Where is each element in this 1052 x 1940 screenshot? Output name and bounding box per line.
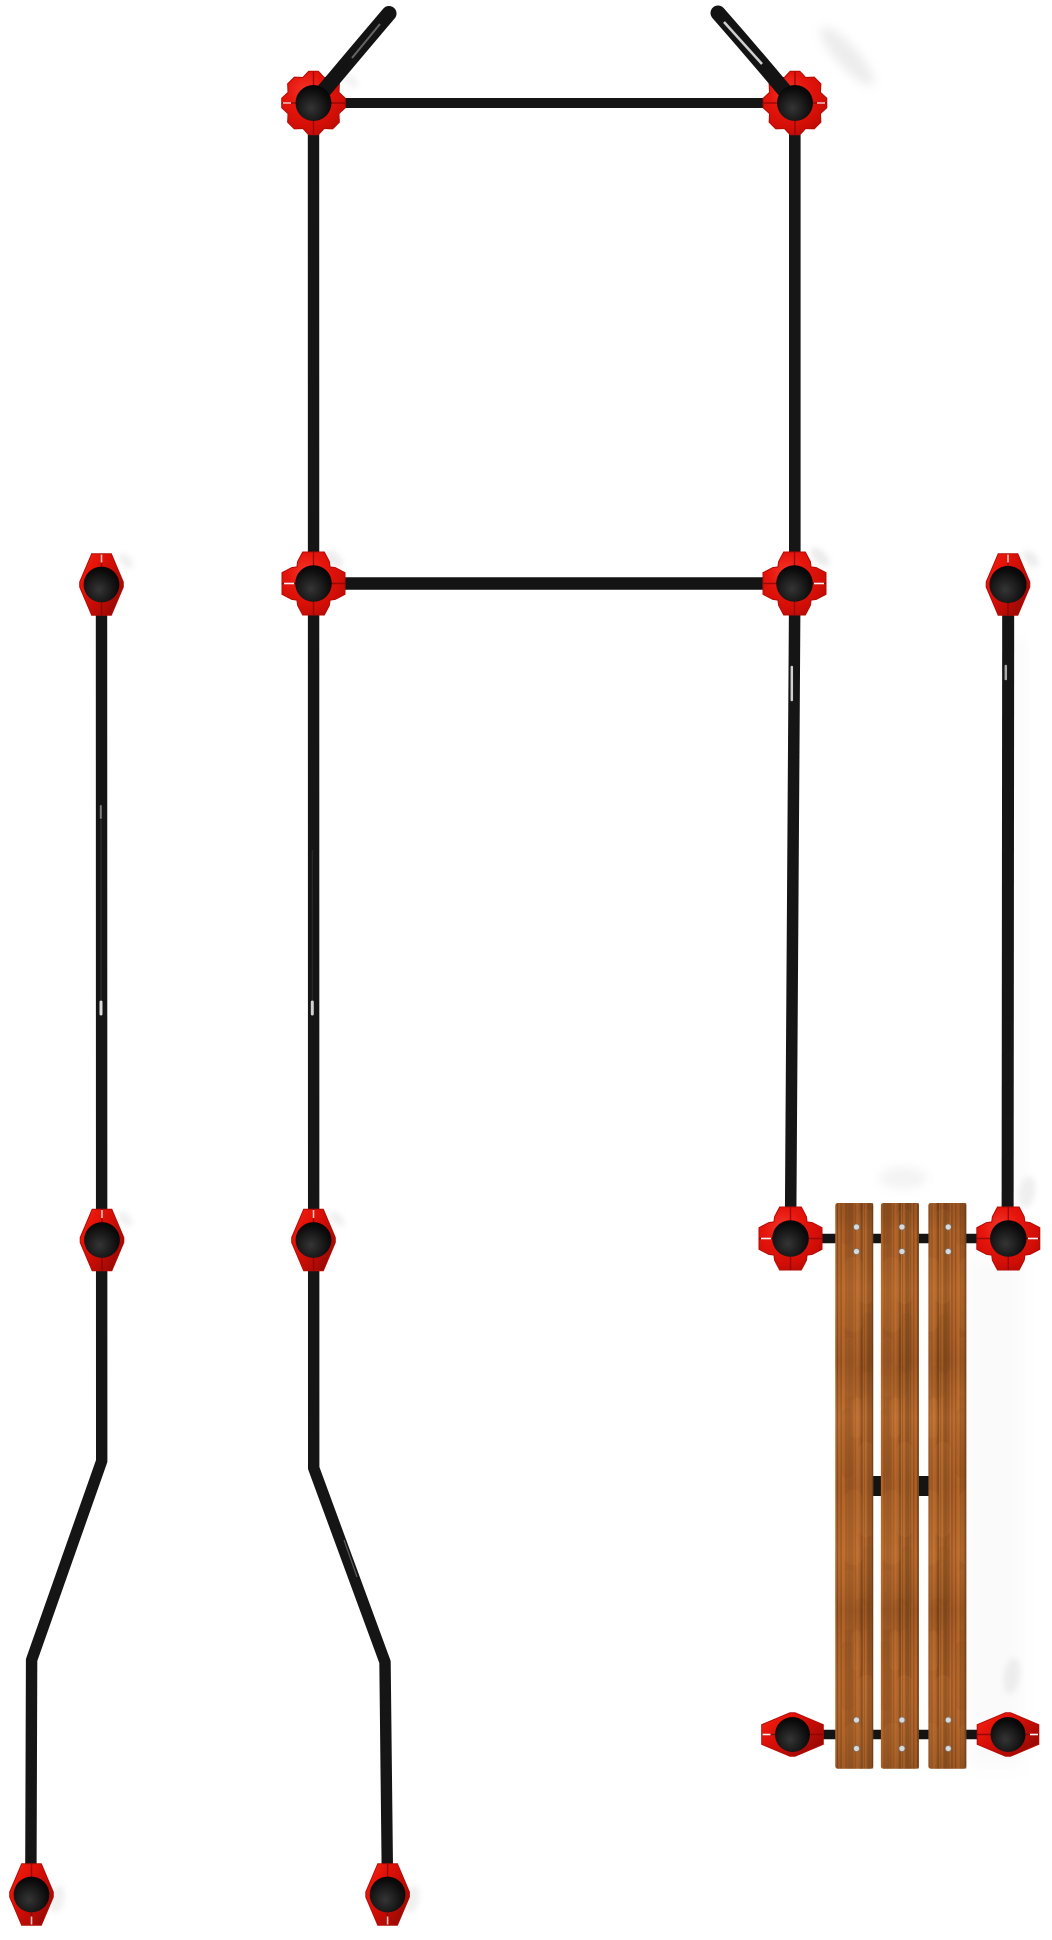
shadow right of clamp C <box>322 547 346 571</box>
shadow above clamp N <box>1002 1657 1023 1695</box>
shadow right of clamp D <box>807 544 832 569</box>
sphere joint at clamp N <box>991 1717 1026 1752</box>
left diagonal handle pipe <box>324 14 389 91</box>
specular highlight on far right pole <box>1005 666 1008 679</box>
right diagonal handle pipe <box>718 13 784 90</box>
right frame vertical pipe <box>789 103 801 584</box>
middle long pole (frame left upright continuing to bottom bend) <box>314 103 388 1894</box>
specular highlight on middle pole slant <box>344 1540 357 1577</box>
far right pole from end clamp to bench clamp <box>1002 592 1015 1235</box>
screws bottom row 2 <box>854 1746 860 1752</box>
screws bottom row 1 <box>854 1717 860 1723</box>
clamp G body (hex clamp, left pole middle) <box>80 1209 124 1271</box>
shadow of right handle <box>813 20 880 91</box>
specular highlight on left pole <box>100 806 102 818</box>
screws top row 1 <box>854 1224 860 1230</box>
pull-up crossbar pipe (second row) <box>314 577 795 589</box>
shadow band right of bench <box>968 1258 1023 1768</box>
shadow right of clamp F <box>1020 547 1042 570</box>
sphere joint at clamp H <box>296 1222 332 1258</box>
specular highlight on right pole <box>791 667 794 700</box>
shadow right of clamp A <box>339 69 360 90</box>
shadow right of far-right pole <box>1016 640 1024 1200</box>
sphere joint at clamp K <box>14 1877 50 1913</box>
clamp I body (4-lobe gear clamp, bench top-left) <box>759 1207 822 1270</box>
clamp N body (hex end clamp, bench bottom-right) <box>977 1713 1039 1757</box>
sphere joint at clamp E <box>84 567 120 603</box>
clamp E body (hex end clamp, left pole top) <box>80 554 124 616</box>
sphere joint at clamp J <box>990 1220 1027 1257</box>
sphere joint at clamp B <box>777 85 813 121</box>
sphere joint at clamp L <box>370 1877 406 1913</box>
clamp K body (hex end clamp, left pole bottom) <box>10 1864 54 1926</box>
screws top row 2 <box>854 1249 860 1255</box>
shadow blob above bench slats <box>879 1167 927 1189</box>
bench bottom support pipe <box>793 1730 1009 1740</box>
left long pole with bottom bend <box>31 585 102 1894</box>
shadow right of clamp E <box>116 551 136 571</box>
top crossbar pipe <box>314 98 796 108</box>
clamp H body (hex clamp, middle pole middle) <box>292 1209 336 1271</box>
bench slat 3 <box>928 1203 966 1769</box>
clamp J body (4-lobe gear clamp, bench top-right) <box>977 1207 1040 1270</box>
sphere joint at clamp M <box>775 1717 810 1752</box>
bench middle support pipe <box>842 1476 960 1496</box>
shadow right of clamp H <box>327 1209 347 1229</box>
clamp M body (hex end clamp, bench bottom-left) <box>762 1713 824 1757</box>
bench slat 1 <box>835 1203 873 1769</box>
sphere joint at clamp F <box>989 566 1026 603</box>
clamp D body (4-lobe gear clamp, pull-up bar right) <box>763 552 826 615</box>
sphere joint at clamp I <box>772 1220 809 1257</box>
shadow right of clamp K <box>47 1884 67 1914</box>
shadow right of clamp G <box>115 1209 135 1229</box>
right pole from pull-up bar to bench clamp <box>791 590 795 1235</box>
specular highlight on middle pole <box>311 850 313 1000</box>
clamp L body (hex end clamp, middle pole bottom) <box>366 1864 410 1926</box>
clamp B body (8-lobe gear clamp, frame top-right) <box>763 71 827 135</box>
bench slat 2 <box>881 1203 919 1769</box>
clamp C body (4-lobe gear clamp, pull-up bar left) <box>282 552 345 615</box>
shadow right of clamp L <box>402 1884 422 1914</box>
sphere joint at clamp A <box>296 85 332 121</box>
bench top support pipe <box>791 1234 1009 1244</box>
clamp F body (hex end clamp, far right pole top) <box>986 554 1030 616</box>
clamp A body (8-lobe gear clamp, frame top-left) <box>282 71 346 135</box>
shadow right of clamp J <box>1016 1175 1037 1209</box>
sphere joint at clamp D <box>776 565 813 602</box>
sphere joint at clamp C <box>295 565 332 602</box>
sphere joint at clamp G <box>84 1222 120 1258</box>
